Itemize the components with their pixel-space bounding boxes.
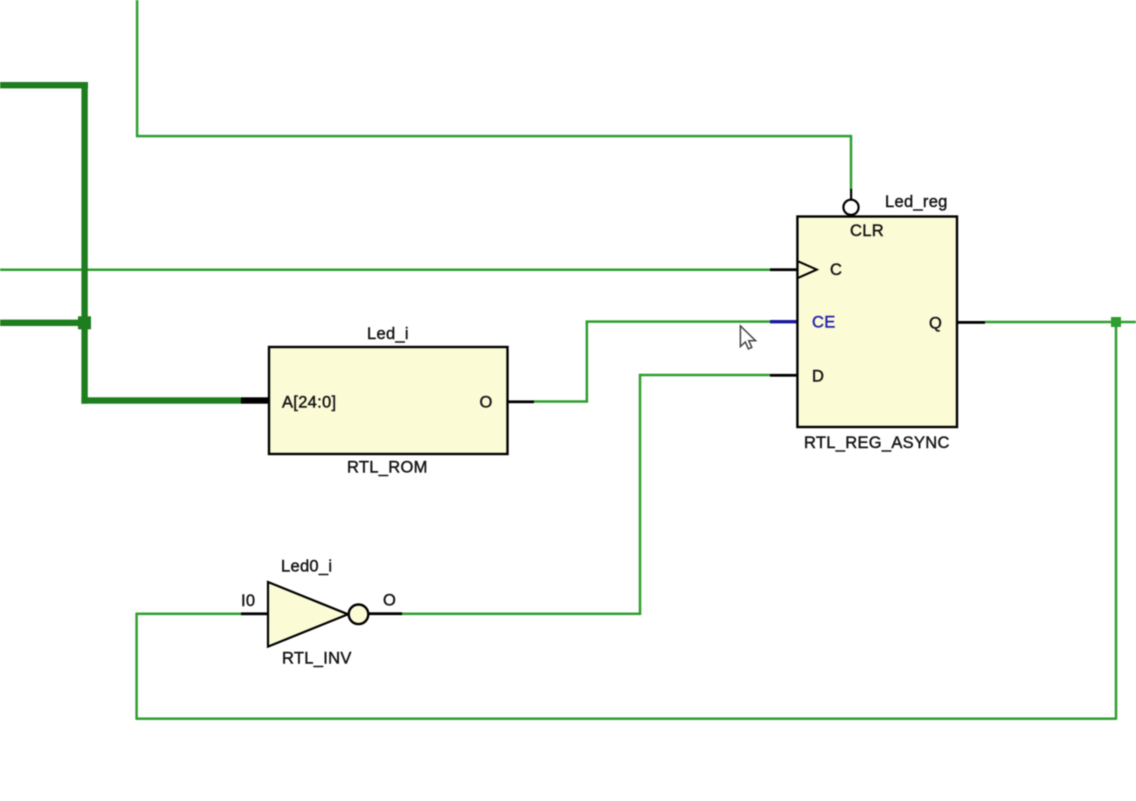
wire net Q horizontal [985, 321, 1136, 324]
wire net CLR horizontal [136, 135, 852, 138]
wire net Q feedback bottom horizontal [136, 717, 1117, 720]
pin stub O of Led_i [506, 400, 534, 403]
junction bus A [78, 316, 91, 329]
inverter Led0_i bubble [349, 605, 369, 625]
ROM Led_i body [269, 347, 508, 454]
pin stub CE of Led_reg (blue) [770, 320, 797, 323]
svg-text:I0: I0 [241, 592, 255, 610]
svg-text:Led_i: Led_i [367, 325, 409, 343]
pin stub A[24:0] of Led_i [241, 397, 270, 403]
register Led_reg clock triangle [798, 261, 817, 278]
wire bus A bottom horizontal to ROM [81, 397, 241, 403]
svg-text:A[24:0]: A[24:0] [282, 394, 336, 412]
svg-text:RTL_ROM: RTL_ROM [347, 459, 428, 477]
svg-text:CE: CE [812, 314, 836, 332]
svg-text:Q: Q [929, 315, 942, 333]
wire bus A vertical [81, 82, 87, 404]
svg-text:C: C [830, 261, 842, 279]
wire net D horizontal [639, 374, 770, 377]
pin stub CLR of Led_reg [850, 189, 852, 200]
svg-text:Led0_i: Led0_i [281, 558, 332, 576]
pin stub D of Led_reg [770, 374, 797, 377]
junction net Q [1111, 317, 1121, 327]
svg-text:D: D [812, 368, 824, 386]
wire net CE from ROM output [534, 400, 588, 403]
register Led_reg body [797, 217, 957, 428]
svg-text:O: O [480, 394, 493, 412]
wire net CE horizontal [586, 320, 770, 323]
wire net Q feedback vertical right [1115, 322, 1118, 719]
mouse cursor [740, 326, 755, 349]
pin stub I0 of Led0_i [241, 612, 269, 615]
wire net CLR drop to bubble [850, 135, 853, 190]
svg-text:Led_reg: Led_reg [885, 193, 948, 211]
wire net D vertical [639, 374, 642, 614]
wire net D from inverter output [402, 613, 641, 616]
wire net C clock horizontal [0, 269, 772, 272]
wire net Q feedback to inverter [136, 613, 242, 616]
inversion bubble CLR of Led_reg [843, 200, 858, 215]
wire bus A top horizontal [0, 82, 88, 88]
wire net CLR vertical from top [136, 0, 139, 137]
svg-text:RTL_INV: RTL_INV [282, 650, 352, 668]
wire net Q feedback vertical left [135, 613, 138, 720]
svg-text:RTL_REG_ASYNC: RTL_REG_ASYNC [804, 434, 950, 452]
pin stub O of Led0_i [367, 612, 403, 615]
inverter Led0_i triangle [268, 582, 348, 647]
pin stub C of Led_reg [770, 268, 797, 271]
svg-text:CLR: CLR [850, 222, 884, 240]
wire bus A middle horizontal [0, 320, 82, 326]
svg-text:O: O [383, 592, 396, 610]
pin stub Q of Led_reg [957, 321, 985, 324]
wire net CE vertical [586, 321, 589, 403]
